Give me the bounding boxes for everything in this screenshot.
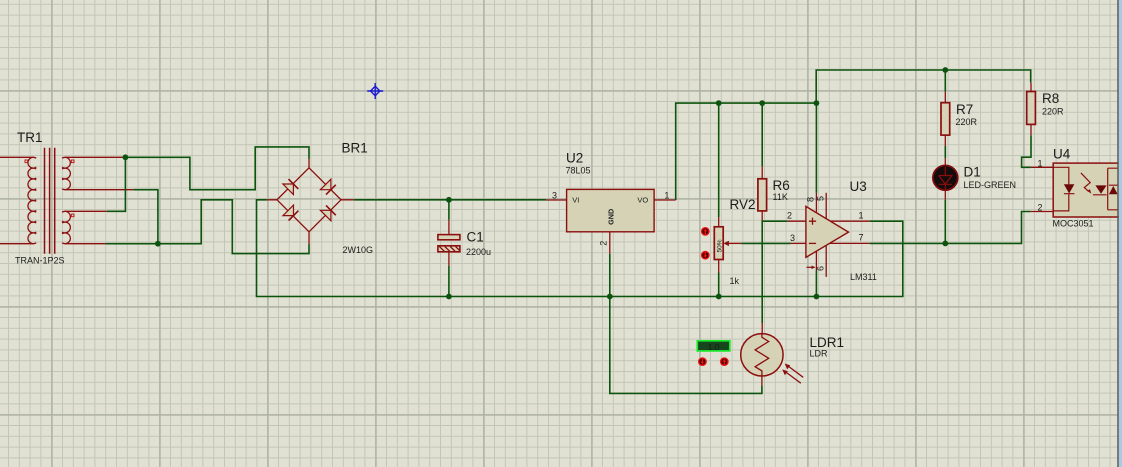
right scrollbar xyxy=(1117,0,1119,467)
bottom lead xyxy=(761,211,763,221)
svg-text:GND: GND xyxy=(607,209,616,225)
svg-text:U4: U4 xyxy=(1053,147,1071,162)
svg-text:2: 2 xyxy=(598,241,608,246)
pin 2 stub xyxy=(787,220,806,222)
body xyxy=(567,189,655,231)
secondary winding lower xyxy=(65,211,107,243)
svg-text:C1: C1 xyxy=(467,230,484,245)
svg-text:5: 5 xyxy=(815,196,825,201)
body xyxy=(714,227,723,260)
svg-text:78L05: 78L05 xyxy=(566,166,591,176)
pin 1 xyxy=(830,220,869,222)
op-amp U3 xyxy=(787,100,1031,299)
capacitor C1 xyxy=(438,197,491,299)
regulator U2 xyxy=(546,151,676,300)
polarity dots xyxy=(25,160,74,217)
wiper arrow xyxy=(723,241,729,246)
svg-text:TRAN-1P2S: TRAN-1P2S xyxy=(15,256,65,266)
junction D1 bottom xyxy=(942,241,948,247)
svg-text:LED-GREEN: LED-GREEN xyxy=(964,180,1017,190)
wire lower-top to dot1 xyxy=(107,157,126,211)
wire lower-bottom to bridge bottom xyxy=(105,200,309,254)
LED D1 xyxy=(933,158,1016,246)
transformer TR1 xyxy=(0,130,133,266)
svg-text:6: 6 xyxy=(815,266,825,271)
pot RV2 xyxy=(701,100,791,299)
svg-text:1.0: 1.0 xyxy=(708,342,720,352)
bottom lead xyxy=(718,260,720,273)
svg-text:BR1: BR1 xyxy=(342,141,368,156)
+V wire bridge to U2 xyxy=(354,199,546,201)
svg-text:1: 1 xyxy=(664,191,669,201)
pin 7 xyxy=(830,242,870,244)
down button xyxy=(701,251,710,260)
minus symbol xyxy=(809,242,816,244)
junction R6 top xyxy=(759,100,765,106)
svg-text:1: 1 xyxy=(859,210,864,220)
pin 2 stub xyxy=(1031,211,1054,213)
plus symbol xyxy=(809,218,816,225)
svg-text:1: 1 xyxy=(1038,158,1043,168)
primary winding xyxy=(0,157,33,243)
wire RV2 top xyxy=(718,103,720,217)
svg-text:R7: R7 xyxy=(956,102,973,117)
svg-text:50%: 50% xyxy=(717,239,724,252)
svg-text:3: 3 xyxy=(790,233,795,243)
svg-text:D1: D1 xyxy=(964,165,981,180)
C1 plates xyxy=(438,235,460,240)
diode bottom-right (B to R) xyxy=(320,205,335,220)
junction dot1 xyxy=(123,154,129,160)
LDR1 xyxy=(610,297,844,394)
diode top-right (T to R) xyxy=(320,179,335,194)
pin stubs xyxy=(267,159,354,244)
resistor R7 xyxy=(941,67,978,158)
body xyxy=(1027,92,1036,125)
light arrow xyxy=(1081,173,1090,192)
svg-text:TR1: TR1 xyxy=(17,130,43,145)
junction C1 bottom xyxy=(446,294,452,300)
zigzag xyxy=(755,334,769,376)
svg-text:220R: 220R xyxy=(1042,107,1064,117)
pin 6 xyxy=(825,245,827,277)
internal triac xyxy=(1093,168,1118,210)
body xyxy=(741,334,783,376)
wire R6 top xyxy=(761,103,763,166)
junction RV2 bottom xyxy=(716,294,722,300)
wire RV2 bottom xyxy=(718,273,720,297)
down button xyxy=(698,357,707,366)
secondary winding upper xyxy=(65,157,133,189)
body xyxy=(1053,163,1120,217)
svg-text:11K: 11K xyxy=(773,192,788,202)
diamond xyxy=(277,168,341,232)
+5V rail wire xyxy=(676,70,1031,200)
strobe arrow xyxy=(807,266,813,268)
svg-text:1k: 1k xyxy=(730,276,740,286)
svg-text:LDR: LDR xyxy=(810,349,829,359)
wire R8 to U4 pin1 xyxy=(1022,135,1031,167)
svg-text:LM311: LM311 xyxy=(850,272,877,282)
wire U2 gnd xyxy=(609,254,611,297)
wire D1 to out rail xyxy=(944,200,946,244)
wire top (from R6 node) xyxy=(761,323,763,334)
svg-text:VI: VI xyxy=(572,195,579,204)
wire wiper to U3 pin3 xyxy=(741,242,790,244)
svg-text:MOC3051: MOC3051 xyxy=(1053,219,1094,229)
wire R7 top xyxy=(944,70,946,92)
svg-text:R8: R8 xyxy=(1042,91,1059,106)
svg-text:RV2: RV2 xyxy=(730,197,756,212)
bottom lead xyxy=(761,376,763,386)
core xyxy=(45,148,55,254)
optocoupler U4 xyxy=(1031,147,1121,229)
svg-text:2200u: 2200u xyxy=(466,247,491,257)
value display xyxy=(697,341,730,351)
up button xyxy=(701,227,710,236)
junction R7 top xyxy=(942,67,948,73)
svg-text:U3: U3 xyxy=(850,179,867,194)
svg-text:220R: 220R xyxy=(956,117,978,127)
resistor R6 xyxy=(758,100,790,323)
pin 2 stub xyxy=(609,232,611,254)
svg-text:2W10G: 2W10G xyxy=(343,245,374,255)
pin 5 xyxy=(825,193,827,219)
pin 1 stub xyxy=(654,199,676,201)
bridge rectifier BR1 xyxy=(267,141,373,256)
wire C1 bottom xyxy=(448,266,450,297)
svg-text:8: 8 xyxy=(806,197,816,202)
svg-text:R6: R6 xyxy=(773,178,790,193)
junction dot2 xyxy=(155,241,161,247)
svg-text:3: 3 xyxy=(552,191,557,201)
internal LED xyxy=(1053,167,1074,211)
svg-text:2: 2 xyxy=(1038,202,1043,212)
wire C1 top xyxy=(448,200,450,220)
wire LDR to ground xyxy=(610,297,762,394)
wire center jog upper-bottom to dot2 xyxy=(133,190,158,244)
ground rail wire xyxy=(257,200,903,297)
diode top-left (L to T) xyxy=(283,179,298,194)
body xyxy=(758,179,767,211)
pin 3 stub xyxy=(791,242,806,244)
resistor R8 xyxy=(1022,83,1064,168)
triangle body xyxy=(806,206,849,257)
pin 8 xyxy=(815,193,817,213)
svg-text:VO: VO xyxy=(637,195,648,204)
wire pin7 output xyxy=(870,212,1031,244)
wire R6 bottom to U3 pin2 and LDR xyxy=(762,221,787,323)
origin marker xyxy=(367,83,383,99)
wire net secondary-top to bridge top xyxy=(125,147,309,190)
body xyxy=(941,103,950,135)
junction U2 gnd xyxy=(607,294,613,300)
diode bottom-left (L to B) xyxy=(283,205,298,220)
svg-text:2: 2 xyxy=(787,211,792,221)
up button xyxy=(720,357,729,366)
pin 4 xyxy=(815,251,817,271)
junction C1 top xyxy=(446,197,452,203)
junction RV2 top xyxy=(716,100,722,106)
pin 1 stub xyxy=(1031,166,1053,168)
wire R7 to D1 xyxy=(944,146,946,158)
light arrows xyxy=(782,364,803,384)
svg-text:7: 7 xyxy=(859,233,864,243)
pin 3 stub xyxy=(546,199,567,201)
svg-text:U2: U2 xyxy=(566,151,583,166)
